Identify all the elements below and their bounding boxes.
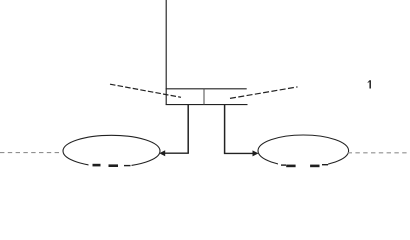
wire: gray dashed baseline left segment [0,152,63,154]
wire: right ellipse bottom thin dash 4 [322,164,328,165]
wire: left drop vertical from box [187,105,189,154]
node: right ellipse bottom gap whiteout [278,162,328,169]
wire: gray dashed baseline right segment [348,152,410,154]
wire: right drop vertical from box [224,105,226,154]
wire: box bottom horizontal line [166,104,248,106]
node: left ellipse [63,135,160,166]
node: left ellipse bottom gap whiteout [89,162,132,169]
node: right ellipse [258,135,349,167]
wire: left ellipse bottom thick dash 2 [109,164,119,167]
wire: left ellipse bottom thin dash 3 [124,165,131,166]
wire: right ellipse bottom thin dash 1 [281,164,286,165]
arrowhead: left arrow pointing left into left ellipse [159,150,165,156]
wire: main vertical stem from top into box [165,0,167,105]
wire: dashed diagonal left whisker [110,84,181,97]
wire: box center divider vertical [203,89,205,105]
wire: right ellipse bottom thick dash 2 [286,165,295,168]
wire: right ellipse bottom thick dash 3 [310,165,319,168]
wire: left arrow horizontal segment [164,152,189,154]
arrowhead: right arrow pointing right into right ellipse [253,150,259,156]
wire: dashed diagonal right whisker [230,87,298,99]
wire: left ellipse bottom thick dash 1 [93,164,101,167]
wire: right arrow horizontal segment [224,152,254,154]
wire: box top horizontal line [166,88,247,90]
label: number 1 [368,80,371,88]
